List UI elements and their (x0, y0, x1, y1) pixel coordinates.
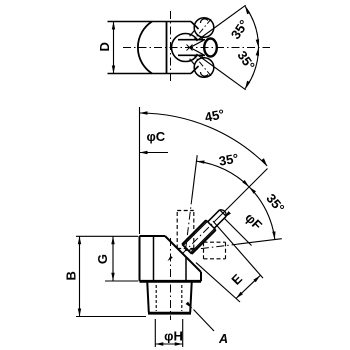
svg-text:A: A (218, 332, 228, 346)
svg-text:φC: φC (146, 129, 165, 144)
svg-text:φH: φH (164, 329, 183, 344)
svg-text:B: B (63, 271, 78, 280)
svg-text:D: D (97, 42, 112, 51)
svg-text:G: G (95, 254, 110, 264)
